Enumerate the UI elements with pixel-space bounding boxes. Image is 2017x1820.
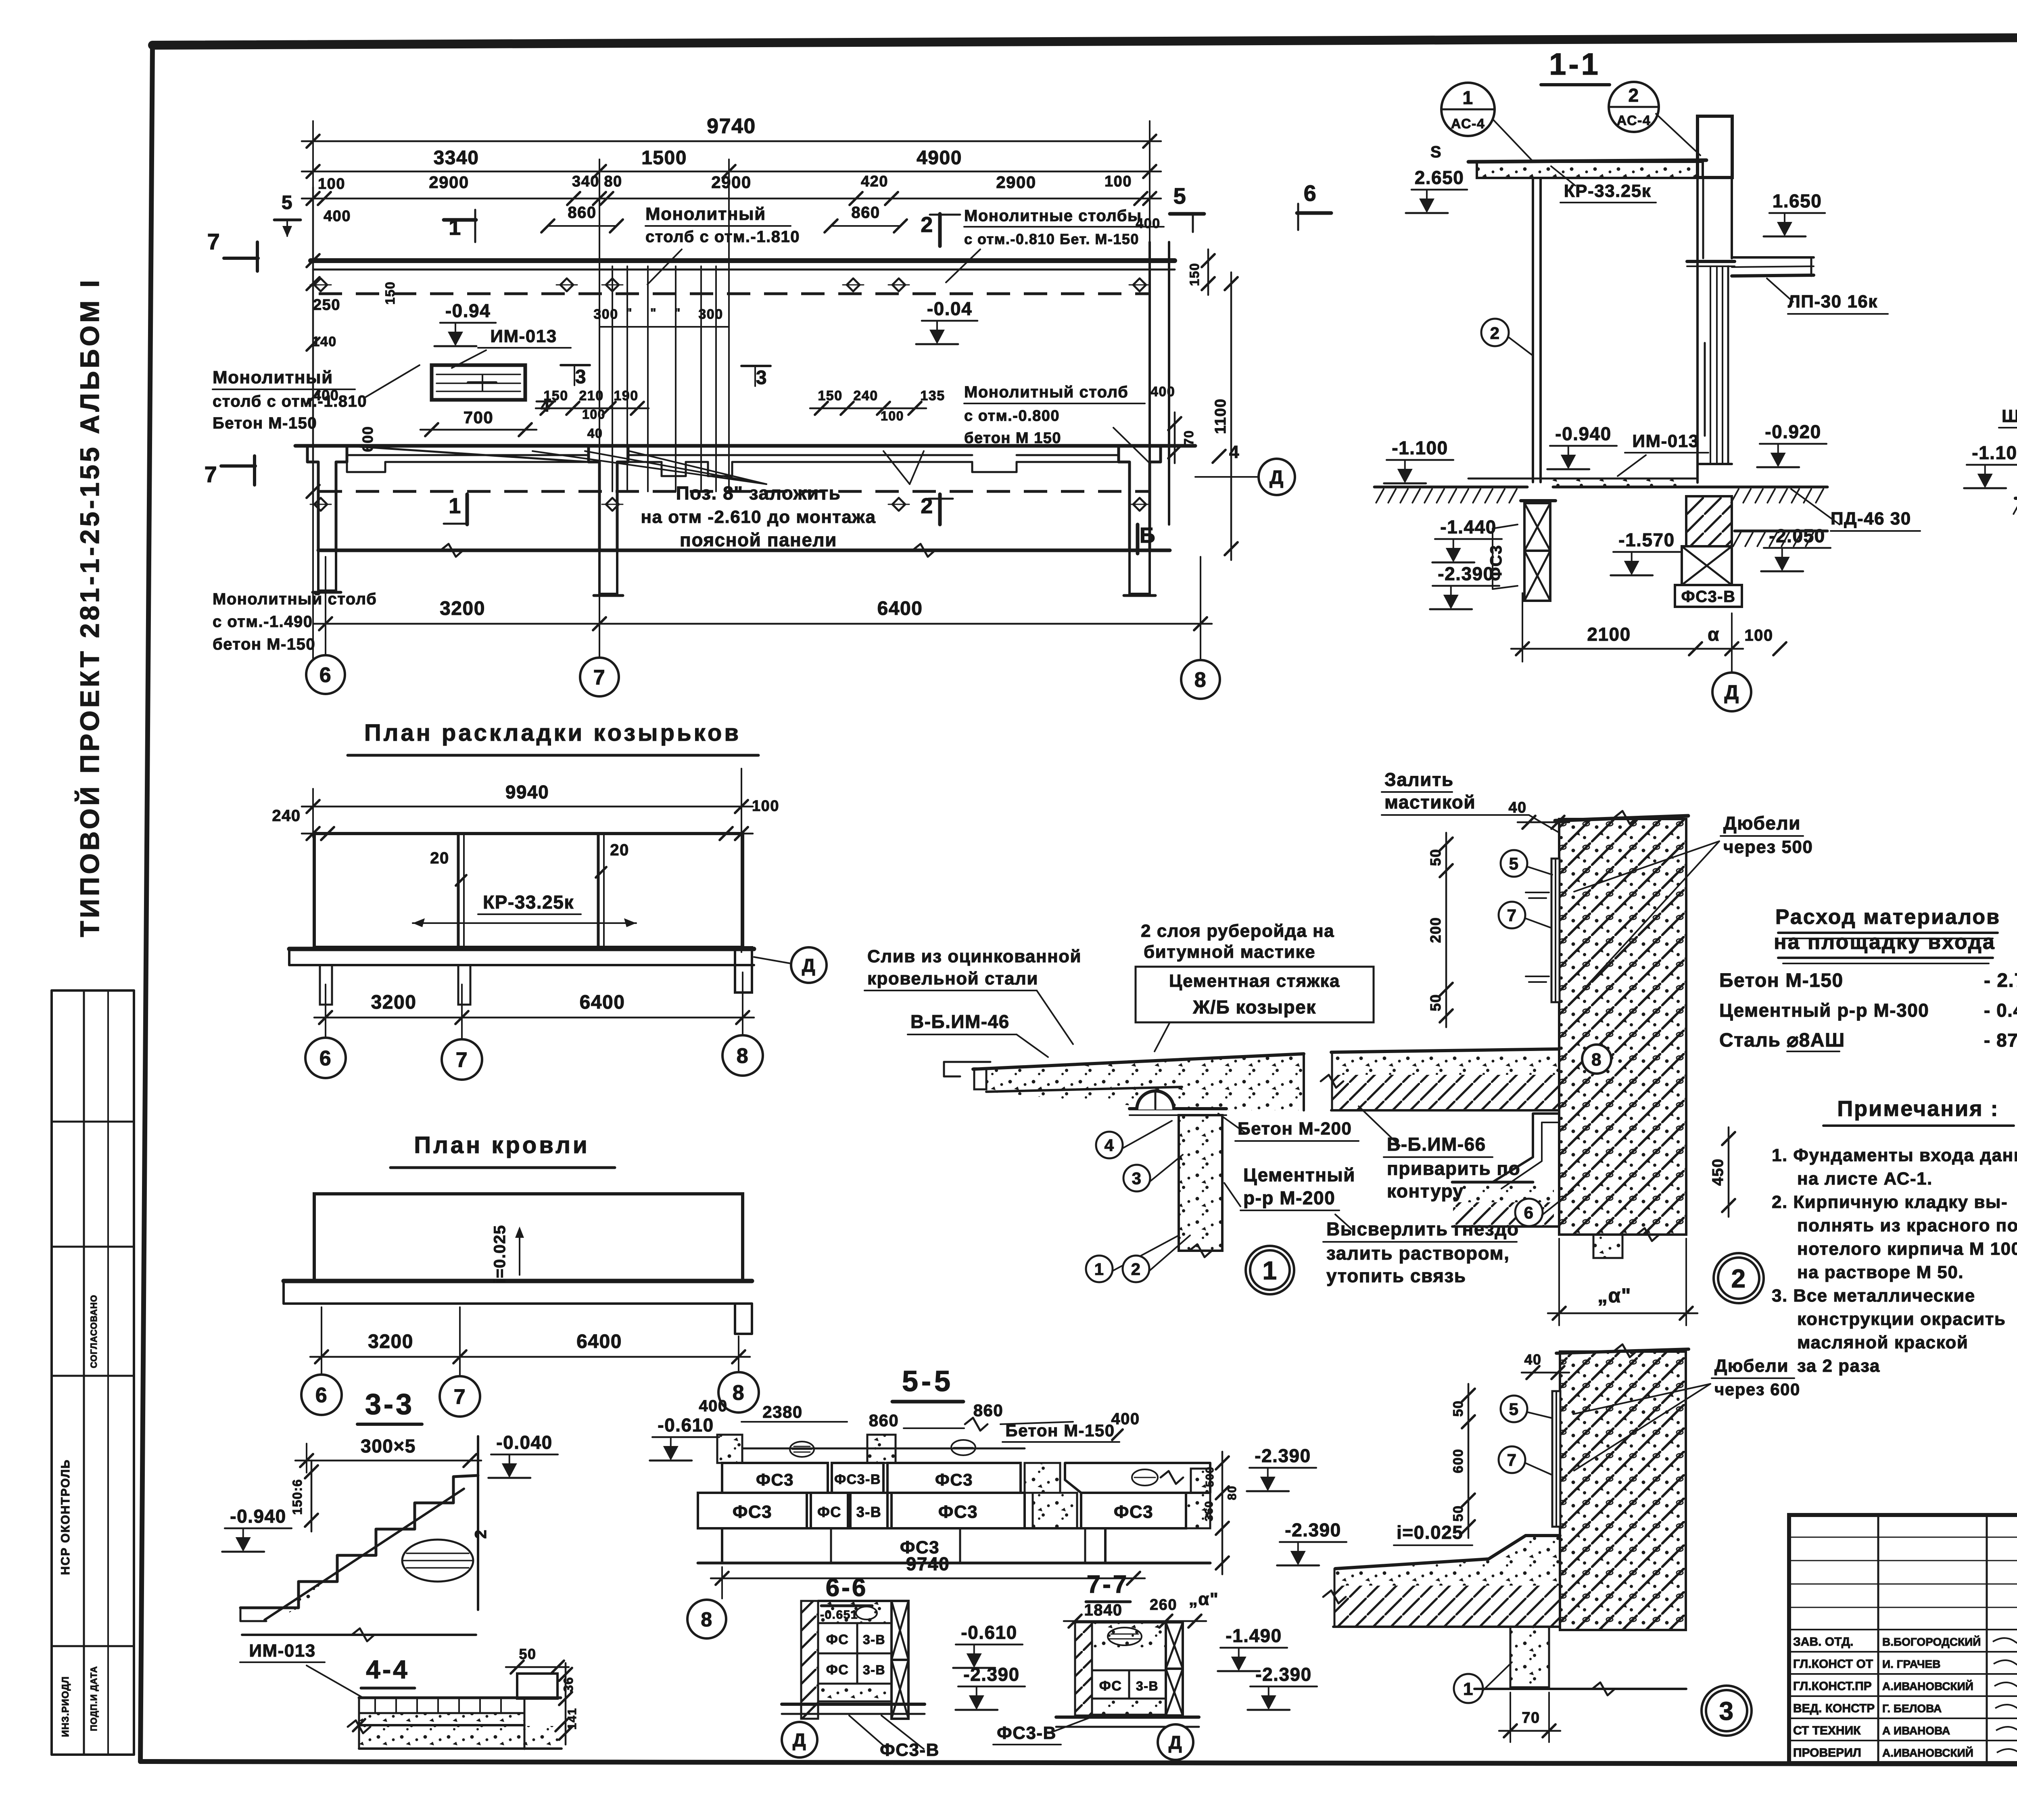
svg-text:6: 6 xyxy=(319,1047,332,1070)
svg-text:": " xyxy=(650,306,657,320)
svg-text:200: 200 xyxy=(1427,917,1444,943)
svg-text:2. Кирпичную кладку вы-: 2. Кирпичную кладку вы- xyxy=(1772,1192,2008,1212)
svg-text:40: 40 xyxy=(1508,799,1526,816)
svg-text:150: 150 xyxy=(818,388,842,403)
svg-text:20: 20 xyxy=(430,849,449,867)
svg-text:100: 100 xyxy=(318,176,345,192)
svg-text:на листе АС-1.: на листе АС-1. xyxy=(1797,1169,1933,1189)
svg-text:столб с отм.-1.810: столб с отм.-1.810 xyxy=(645,228,800,246)
svg-text:3200: 3200 xyxy=(371,992,417,1013)
svg-text:Штукатурка-20мк: Штукатурка-20мк xyxy=(2002,406,2017,426)
svg-text:": " xyxy=(626,306,633,320)
svg-text:с отм.-1.490: с отм.-1.490 xyxy=(213,613,313,631)
svg-text:за 2 раза: за 2 раза xyxy=(1797,1356,1880,1376)
svg-text:3: 3 xyxy=(756,367,767,389)
svg-text:2: 2 xyxy=(1628,85,1639,106)
svg-text:кровельной стали: кровельной стали xyxy=(867,969,1038,988)
svg-text:полнять из красного пол-: полнять из красного пол- xyxy=(1797,1216,2017,1235)
svg-text:7: 7 xyxy=(456,1049,468,1072)
svg-text:5: 5 xyxy=(1173,183,1187,209)
svg-text:1: 1 xyxy=(1463,1679,1474,1699)
svg-text:-0.94: -0.94 xyxy=(445,300,491,321)
svg-text:через 500: через 500 xyxy=(1723,837,1813,857)
svg-text:7: 7 xyxy=(593,666,606,690)
svg-text:50: 50 xyxy=(1451,1505,1466,1522)
svg-text:Монолитный столб: Монолитный столб xyxy=(964,383,1128,401)
svg-text:5: 5 xyxy=(1509,854,1519,873)
svg-text:ФС: ФС xyxy=(817,1504,841,1520)
svg-text:ИМ-013: ИМ-013 xyxy=(490,326,557,346)
left margin album text xyxy=(74,277,104,937)
svg-text:ГЛ.КОНСТ.ПР: ГЛ.КОНСТ.ПР xyxy=(1793,1680,1872,1693)
svg-text:приварить по: приварить по xyxy=(1387,1158,1520,1179)
svg-text:залить раствором,: залить раствором, xyxy=(1326,1243,1510,1264)
svg-text:8: 8 xyxy=(701,1608,712,1631)
svg-text:i=0.025: i=0.025 xyxy=(1397,1522,1463,1543)
svg-text:600: 600 xyxy=(1451,1448,1466,1473)
svg-text:2900: 2900 xyxy=(429,173,469,192)
svg-text:В-Б.ИМ-66: В-Б.ИМ-66 xyxy=(1387,1134,1486,1155)
svg-text:2900: 2900 xyxy=(711,173,751,192)
svg-text:4900: 4900 xyxy=(917,147,962,169)
svg-text:50: 50 xyxy=(1451,1400,1466,1417)
svg-text:4-4: 4-4 xyxy=(366,1655,409,1684)
svg-text:7: 7 xyxy=(1507,906,1517,925)
svg-text:Расход материалов: Расход материалов xyxy=(1775,905,2000,929)
svg-text:В.БОГОРОДСКИЙ: В.БОГОРОДСКИЙ xyxy=(1882,1635,1981,1648)
canopy layout plan (Plan raskladki kozyrkov) xyxy=(272,720,827,1080)
svg-text:1-1: 1-1 xyxy=(1549,47,1601,81)
svg-text:2: 2 xyxy=(1131,1260,1141,1279)
svg-text:Цементный р-р М-300: Цементный р-р М-300 xyxy=(1719,1000,1929,1021)
svg-text:А ИВАНОВА: А ИВАНОВА xyxy=(1882,1724,1950,1737)
svg-text:Г. БЕЛОВА: Г. БЕЛОВА xyxy=(1882,1702,1942,1715)
svg-text:150: 150 xyxy=(543,388,568,403)
svg-text:6-6: 6-6 xyxy=(826,1574,868,1602)
svg-text:ПОДП.И ДАТА: ПОДП.И ДАТА xyxy=(89,1666,99,1731)
svg-text:-0.651: -0.651 xyxy=(820,1608,858,1621)
section 2-2 xyxy=(1964,47,2017,696)
svg-text:Д: Д xyxy=(1169,1732,1182,1753)
svg-text:-2.390: -2.390 xyxy=(1255,1445,1311,1466)
svg-text:6: 6 xyxy=(1524,1203,1534,1222)
svg-text:240: 240 xyxy=(272,807,301,825)
svg-text:- 87.6 кг: - 87.6 кг xyxy=(1984,1030,2017,1051)
svg-text:- 2.73 м: - 2.73 м xyxy=(1984,970,2017,991)
svg-text:СОГЛАСОВАНО: СОГЛАСОВАНО xyxy=(89,1295,99,1368)
svg-text:7: 7 xyxy=(1507,1450,1517,1469)
svg-text:р-р М-200: р-р М-200 xyxy=(1243,1187,1335,1208)
svg-text:„α": „α" xyxy=(1189,1589,1219,1609)
svg-text:1.650: 1.650 xyxy=(1773,190,1822,211)
svg-text:210: 210 xyxy=(579,388,603,403)
svg-text:2: 2 xyxy=(1731,1264,1746,1293)
svg-text:„α": „α" xyxy=(1597,1284,1631,1307)
svg-text:-1.490: -1.490 xyxy=(1226,1625,1282,1646)
svg-text:3: 3 xyxy=(1132,1169,1142,1188)
svg-text:-2.390: -2.390 xyxy=(1285,1519,1341,1540)
svg-text:5: 5 xyxy=(282,192,293,213)
svg-text:3-В: 3-В xyxy=(1136,1679,1159,1693)
svg-text:250: 250 xyxy=(313,297,340,313)
svg-text:860: 860 xyxy=(568,204,596,221)
svg-text:Бетон М-150: Бетон М-150 xyxy=(1719,970,1844,991)
svg-text:1100: 1100 xyxy=(1212,398,1229,434)
svg-text:План раскладки козырьков: План раскладки козырьков xyxy=(364,720,741,746)
svg-text:Дюбели: Дюбели xyxy=(1714,1356,1789,1376)
svg-text:Д: Д xyxy=(1724,681,1739,704)
svg-text:ФС3: ФС3 xyxy=(935,1470,973,1489)
svg-text:А.ИВАНОВСКИЙ: А.ИВАНОВСКИЙ xyxy=(1882,1746,1973,1759)
svg-text:7: 7 xyxy=(205,462,218,487)
svg-text:Монолитный: Монолитный xyxy=(645,204,766,224)
svg-text:ФС3: ФС3 xyxy=(733,1502,772,1522)
svg-text:на отм -2.610 до монтажа: на отм -2.610 до монтажа xyxy=(641,507,876,527)
svg-text:В-Б.ИМ-46: В-Б.ИМ-46 xyxy=(910,1011,1010,1032)
svg-text:3200: 3200 xyxy=(368,1331,413,1352)
svg-text:500: 500 xyxy=(1203,1466,1216,1487)
svg-text:-0.610: -0.610 xyxy=(961,1622,1017,1643)
svg-text:S: S xyxy=(1430,143,1442,161)
svg-text:-2.390: -2.390 xyxy=(1255,1664,1311,1685)
svg-text:НСР ОКОНТРОЛЬ: НСР ОКОНТРОЛЬ xyxy=(59,1459,72,1575)
svg-text:1840: 1840 xyxy=(1084,1601,1123,1619)
svg-text:2 слоя руберойда на: 2 слоя руберойда на xyxy=(1141,921,1334,941)
svg-text:260: 260 xyxy=(1150,1596,1177,1613)
svg-text:4: 4 xyxy=(1229,442,1240,462)
svg-text:6400: 6400 xyxy=(576,1331,622,1352)
svg-text:мастикой: мастикой xyxy=(1384,792,1476,813)
svg-text:3-3: 3-3 xyxy=(365,1388,414,1421)
detail 1 canopy-column node xyxy=(864,921,1520,1294)
svg-text:240: 240 xyxy=(853,388,878,403)
svg-text:ФС3-В: ФС3-В xyxy=(834,1472,881,1487)
svg-text:50: 50 xyxy=(519,1646,536,1662)
svg-text:400: 400 xyxy=(699,1397,727,1415)
svg-text:6400: 6400 xyxy=(580,992,625,1013)
svg-text:1: 1 xyxy=(1094,1260,1105,1279)
svg-text:7-7: 7-7 xyxy=(1087,1571,1129,1599)
svg-text:400: 400 xyxy=(1136,216,1160,231)
svg-text:Цементная стяжка: Цементная стяжка xyxy=(1169,971,1340,991)
svg-text:1: 1 xyxy=(1262,1256,1277,1285)
svg-text:3-В: 3-В xyxy=(863,1663,885,1677)
svg-text:Д: Д xyxy=(802,955,816,976)
section 5-5 foundation blocks xyxy=(650,1365,1347,1638)
svg-text:150:6: 150:6 xyxy=(290,1479,305,1515)
svg-text:5-5: 5-5 xyxy=(902,1365,954,1398)
svg-text:300×5: 300×5 xyxy=(361,1436,416,1456)
material consumption text xyxy=(1719,905,2017,1051)
svg-text:-0.940: -0.940 xyxy=(1555,423,1611,444)
left margin stamp table xyxy=(52,990,134,1755)
svg-text:1: 1 xyxy=(1462,87,1473,108)
svg-text:40: 40 xyxy=(587,426,603,441)
svg-text:ФС3-В: ФС3-В xyxy=(880,1740,940,1760)
svg-text:6: 6 xyxy=(1304,180,1317,206)
svg-text:2: 2 xyxy=(472,1529,490,1539)
svg-text:420: 420 xyxy=(861,173,888,190)
svg-text:с отм.-0.810 Бет. М-150: с отм.-0.810 Бет. М-150 xyxy=(964,231,1139,247)
section 1-1 xyxy=(1374,47,1920,711)
svg-text:80: 80 xyxy=(604,173,622,190)
svg-text:i=0.025: i=0.025 xyxy=(491,1224,509,1283)
svg-text:-2.050: -2.050 xyxy=(1769,525,1825,546)
svg-text:α: α xyxy=(1708,624,1720,645)
svg-text:ФС3-В: ФС3-В xyxy=(1681,588,1736,606)
svg-text:6: 6 xyxy=(315,1384,328,1407)
svg-text:300: 300 xyxy=(593,307,618,322)
svg-text:КР-33.25к: КР-33.25к xyxy=(483,892,574,913)
svg-text:100: 100 xyxy=(752,798,779,815)
svg-text:-0.940: -0.940 xyxy=(230,1506,286,1527)
svg-text:7: 7 xyxy=(454,1385,466,1409)
svg-text:340: 340 xyxy=(572,173,599,190)
svg-text:-1.440: -1.440 xyxy=(1440,516,1496,537)
svg-text:-0.920: -0.920 xyxy=(1765,421,1821,442)
detail 3 lower wall node xyxy=(1323,1344,1800,1742)
svg-text:860: 860 xyxy=(869,1411,899,1430)
svg-text:контуру: контуру xyxy=(1387,1181,1464,1201)
svg-text:3200: 3200 xyxy=(440,598,485,619)
svg-text:АС-4: АС-4 xyxy=(1617,113,1651,128)
svg-text:9740: 9740 xyxy=(906,1553,950,1574)
svg-text:3. Все металлические: 3. Все металлические xyxy=(1772,1286,1975,1306)
svg-text:20: 20 xyxy=(610,841,629,859)
svg-text:ИНЗ.РИОДЛ: ИНЗ.РИОДЛ xyxy=(60,1676,71,1737)
svg-text:150: 150 xyxy=(1187,263,1202,286)
svg-text:3340: 3340 xyxy=(434,147,479,169)
svg-text:ИМ-013: ИМ-013 xyxy=(249,1641,315,1661)
svg-text:36: 36 xyxy=(561,1677,576,1693)
svg-text:Дюбели: Дюбели xyxy=(1723,813,1801,834)
svg-text:ПРОВЕРИЛ: ПРОВЕРИЛ xyxy=(1793,1746,1861,1759)
svg-text:1: 1 xyxy=(449,494,461,518)
svg-text:9940: 9940 xyxy=(505,781,549,802)
svg-text:Залить: Залить xyxy=(1384,769,1454,790)
svg-text:1. Фундаменты входа даны: 1. Фундаменты входа даны xyxy=(1772,1145,2017,1165)
svg-text:4: 4 xyxy=(1105,1136,1115,1155)
svg-text:нотелого кирпича М 100: нотелого кирпича М 100 xyxy=(1797,1239,2017,1259)
svg-text:конструкции окрасить: конструкции окрасить xyxy=(1797,1309,2006,1329)
svg-text:135: 135 xyxy=(920,388,945,403)
svg-text:масляной краской: масляной краской xyxy=(1797,1333,1968,1352)
svg-text:190: 190 xyxy=(614,388,638,403)
svg-text:Бетон М-150: Бетон М-150 xyxy=(1005,1421,1115,1440)
svg-text:-0.610: -0.610 xyxy=(658,1415,714,1436)
svg-text:А.ИВАНОВСКИЙ: А.ИВАНОВСКИЙ xyxy=(1882,1680,1973,1693)
svg-text:Слив из оцинкованной: Слив из оцинкованной xyxy=(867,947,1082,966)
svg-text:Поз. 8" заложить: Поз. 8" заложить xyxy=(676,483,841,504)
svg-text:300: 300 xyxy=(698,307,723,322)
svg-text:2: 2 xyxy=(921,213,933,237)
svg-text:400: 400 xyxy=(1111,1410,1140,1428)
svg-text:ФС: ФС xyxy=(1099,1678,1122,1694)
svg-text:860: 860 xyxy=(851,204,880,221)
svg-text:- 0.41 м: - 0.41 м xyxy=(1984,1000,2017,1021)
svg-text:-0.04: -0.04 xyxy=(927,298,972,319)
svg-text:2100: 2100 xyxy=(1587,624,1631,645)
svg-text:на растворе М 50.: на растворе М 50. xyxy=(1797,1262,1964,1282)
svg-text:3: 3 xyxy=(1719,1697,1734,1726)
svg-text:ФС3: ФС3 xyxy=(756,1470,794,1489)
svg-text:70: 70 xyxy=(1182,430,1196,446)
title block xyxy=(1789,1515,2017,1763)
svg-text:400: 400 xyxy=(1150,384,1175,399)
svg-text:поясной панели: поясной панели xyxy=(680,529,837,550)
svg-text:ФС: ФС xyxy=(826,1632,849,1647)
svg-text:8: 8 xyxy=(733,1381,745,1405)
svg-text:через 600: через 600 xyxy=(1714,1380,1800,1399)
svg-text:100: 100 xyxy=(1744,627,1773,644)
svg-text:ЛП-30 16к: ЛП-30 16к xyxy=(1788,292,1878,311)
svg-text:100: 100 xyxy=(1105,173,1132,190)
svg-text:2: 2 xyxy=(921,494,933,518)
svg-text:утопить связь: утопить связь xyxy=(1326,1265,1466,1286)
svg-text:ФС3: ФС3 xyxy=(938,1502,978,1522)
svg-text:Б: Б xyxy=(1140,523,1156,547)
svg-text:Д: Д xyxy=(793,1730,806,1751)
svg-text:столб с отм.-1.810: столб с отм.-1.810 xyxy=(213,393,367,410)
roof plan (Plan krovli) xyxy=(284,1132,759,1417)
svg-text:70: 70 xyxy=(1522,1709,1540,1726)
svg-text:КР-33.25к: КР-33.25к xyxy=(1564,181,1651,201)
section 7-7 pier xyxy=(993,1571,1317,1760)
svg-text:-2.390: -2.390 xyxy=(1438,563,1494,584)
svg-text:3-В: 3-В xyxy=(863,1632,885,1647)
svg-text:50: 50 xyxy=(1427,994,1444,1011)
svg-text:битумной мастике: битумной мастике xyxy=(1144,942,1315,962)
svg-text:ГЛ.КОНСТ ОТ: ГЛ.КОНСТ ОТ xyxy=(1793,1657,1873,1671)
svg-text:Монолитные столбы: Монолитные столбы xyxy=(964,207,1142,225)
svg-text:100: 100 xyxy=(881,409,904,423)
svg-text:бетон М-150: бетон М-150 xyxy=(213,635,315,653)
svg-text:План кровли: План кровли xyxy=(414,1132,589,1158)
top-left entrance platform plan xyxy=(205,115,1331,699)
svg-text:3: 3 xyxy=(575,366,587,388)
svg-text:8: 8 xyxy=(1194,669,1207,692)
svg-text:700: 700 xyxy=(464,408,494,427)
svg-text:Ж/Б козырек: Ж/Б козырек xyxy=(1192,997,1316,1018)
svg-text:-0.040: -0.040 xyxy=(496,1432,552,1453)
section 4-4 floor xyxy=(240,1641,579,1749)
svg-text:1500: 1500 xyxy=(641,147,687,169)
svg-text:400: 400 xyxy=(324,208,351,225)
svg-text:АС-4: АС-4 xyxy=(1451,116,1485,132)
section 6-6 pier xyxy=(782,1574,1025,1761)
svg-text:50: 50 xyxy=(1427,848,1444,866)
svg-text:ТИПОВОЙ ПРОЕКТ 281-1-25-155 А: ТИПОВОЙ ПРОЕКТ 281-1-25-155 АЛЬБОМ I xyxy=(74,277,104,937)
svg-text:Цементный: Цементный xyxy=(1243,1164,1355,1185)
svg-text:Сталь ⌀8АШ: Сталь ⌀8АШ xyxy=(1719,1030,1845,1051)
svg-text:ФС3: ФС3 xyxy=(1114,1502,1153,1522)
svg-text:860: 860 xyxy=(973,1401,1004,1420)
svg-text:Д: Д xyxy=(1269,467,1284,488)
svg-text:8: 8 xyxy=(737,1045,749,1068)
svg-text:ВЕД. КОНСТР: ВЕД. КОНСТР xyxy=(1793,1702,1875,1715)
svg-text:2900: 2900 xyxy=(996,173,1036,192)
svg-text:6: 6 xyxy=(319,664,332,687)
svg-text:6400: 6400 xyxy=(877,598,923,619)
notes text xyxy=(1772,1097,2017,1376)
svg-text:Примечания :: Примечания : xyxy=(1837,1097,1999,1121)
section 3-3 stairs xyxy=(222,1388,558,1641)
detail 2 wall node xyxy=(1321,769,1813,1325)
svg-text:2380: 2380 xyxy=(762,1402,802,1421)
svg-text:ЗАВ. ОТД.: ЗАВ. ОТД. xyxy=(1793,1635,1853,1649)
svg-text:-1.100: -1.100 xyxy=(1392,437,1448,458)
svg-text:ИМ-013: ИМ-013 xyxy=(1632,431,1699,451)
svg-text:И. ГРАЧЕВ: И. ГРАЧЕВ xyxy=(1882,1658,1940,1670)
svg-text:ФС: ФС xyxy=(826,1662,849,1678)
svg-text:Бетон М-200: Бетон М-200 xyxy=(1238,1119,1352,1139)
svg-text:с отм.-0.800: с отм.-0.800 xyxy=(964,407,1060,424)
svg-text:СТ ТЕХНИК: СТ ТЕХНИК xyxy=(1793,1724,1861,1737)
svg-text:-2.390: -2.390 xyxy=(963,1664,1019,1685)
svg-text:2: 2 xyxy=(1490,324,1500,343)
svg-text:ПД-46 30: ПД-46 30 xyxy=(1831,509,1911,529)
svg-text:ФС3-В: ФС3-В xyxy=(997,1723,1057,1743)
svg-text:": " xyxy=(674,306,681,320)
svg-text:9740: 9740 xyxy=(707,115,756,138)
svg-text:Бетон М-150: Бетон М-150 xyxy=(213,414,317,432)
svg-text:-1.570: -1.570 xyxy=(1618,529,1675,550)
svg-text:2.650: 2.650 xyxy=(1415,167,1464,188)
svg-text:на площадку входа: на площадку входа xyxy=(1774,930,1996,954)
svg-text:Монолитный столб: Монолитный столб xyxy=(213,590,377,608)
svg-text:450: 450 xyxy=(1710,1158,1727,1186)
svg-text:Монолитный: Монолитный xyxy=(213,368,333,387)
svg-text:8: 8 xyxy=(1591,1050,1602,1070)
svg-text:-1.100: -1.100 xyxy=(1972,442,2017,463)
svg-text:7: 7 xyxy=(207,229,221,254)
svg-text:3-В: 3-В xyxy=(856,1504,882,1520)
svg-text:5: 5 xyxy=(1509,1400,1519,1419)
svg-text:80: 80 xyxy=(1226,1486,1239,1500)
svg-text:360: 360 xyxy=(1203,1500,1215,1521)
